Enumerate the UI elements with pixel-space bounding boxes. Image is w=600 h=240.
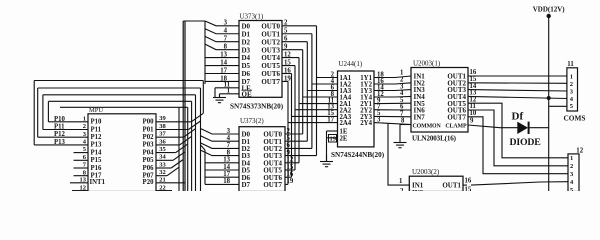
U2003(1) CLAMP wire [468, 117, 518, 127]
svg-text:SN74S244NB(20): SN74S244NB(20) [331, 151, 385, 159]
svg-text:2E: 2E [340, 135, 348, 142]
svg-text:3: 3 [224, 20, 228, 27]
svg-text:U373(2): U373(2) [240, 117, 264, 125]
svg-text:16: 16 [287, 171, 294, 178]
svg-text:U2003(1): U2003(1) [413, 59, 441, 67]
svg-text:1: 1 [399, 178, 403, 185]
svg-text:15: 15 [284, 59, 291, 66]
MPU P20 wire [156, 183, 185, 191]
svg-text:INT1: INT1 [90, 179, 106, 186]
svg-text:2Y4: 2Y4 [360, 120, 372, 127]
svg-text:9: 9 [284, 43, 288, 50]
svg-text:3: 3 [377, 116, 381, 123]
svg-text:1: 1 [570, 73, 573, 80]
svg-text:1: 1 [227, 88, 231, 95]
svg-text:8: 8 [224, 43, 228, 50]
svg-text:5: 5 [284, 28, 288, 35]
svg-text:SN74S373NB(20): SN74S373NB(20) [230, 103, 284, 111]
svg-text:OUT3: OUT3 [261, 46, 280, 54]
svg-text:4: 4 [227, 135, 231, 142]
svg-text:34: 34 [159, 154, 166, 161]
U2003(2) pin names [400, 182, 461, 198]
svg-text:11: 11 [567, 61, 574, 68]
svg-text:VDD(12V): VDD(12V) [533, 6, 566, 14]
svg-text:OUT7: OUT7 [261, 78, 280, 86]
VDD(12V) supply rail [533, 6, 566, 192]
net labels P10-P13 [54, 116, 66, 146]
svg-text:36: 36 [159, 138, 166, 145]
ground at U2003(1) COMMON [394, 125, 407, 148]
U244(1) part number SN74S244NB(20) [331, 151, 385, 159]
svg-text:D1: D1 [242, 30, 251, 38]
svg-text:13: 13 [223, 157, 230, 164]
svg-text:P20: P20 [143, 179, 155, 186]
svg-text:D6: D6 [242, 70, 251, 78]
IC U244(1) box [338, 60, 375, 147]
svg-text:10: 10 [470, 110, 477, 117]
diode Df DIODE [510, 111, 549, 149]
svg-text:P13: P13 [91, 142, 103, 149]
MPU P14-P17 and INT1 stubs [70, 153, 88, 191]
svg-text:D3: D3 [242, 46, 251, 54]
svg-text:P05: P05 [143, 157, 155, 164]
IC MPU box [88, 107, 156, 192]
bus verticals to U373(1) [183, 21, 205, 191]
svg-text:14: 14 [220, 59, 227, 66]
svg-text:U244(1): U244(1) [339, 60, 363, 68]
svg-text:7: 7 [224, 36, 228, 43]
svg-text:16: 16 [284, 67, 291, 74]
svg-text:32: 32 [159, 169, 166, 176]
svg-text:P00: P00 [143, 119, 155, 126]
svg-text:4: 4 [224, 28, 228, 35]
svg-text:8: 8 [401, 118, 405, 125]
svg-text:13: 13 [220, 51, 227, 58]
svg-text:39: 39 [159, 115, 166, 122]
svg-text:P06: P06 [143, 165, 155, 172]
wires U2003(1) OUT5-7 to connector 12 [468, 96, 568, 173]
svg-text:D0: D0 [242, 22, 251, 30]
wire 2Y4 to U2003(2) IN1 [388, 123, 409, 185]
bus wires U373 outputs to U244 inputs [282, 20, 338, 185]
U244(1) enable wires + pin 19 [327, 131, 338, 162]
svg-text:OUT7: OUT7 [263, 181, 282, 189]
svg-text:U373(1): U373(1) [240, 13, 264, 21]
svg-text:P01: P01 [143, 126, 155, 133]
svg-text:2A4: 2A4 [340, 120, 352, 127]
U373(1) input pin wires + numbers [205, 20, 239, 83]
svg-text:35: 35 [159, 146, 166, 153]
svg-text:3: 3 [227, 128, 231, 135]
ground at U373(1) OE [213, 94, 226, 103]
svg-text:19: 19 [284, 75, 291, 82]
svg-text:D4: D4 [242, 54, 251, 62]
svg-text:D7: D7 [242, 181, 251, 189]
svg-text:12: 12 [287, 157, 294, 164]
svg-text:9: 9 [287, 149, 291, 156]
svg-text:16: 16 [465, 178, 472, 185]
svg-text:33: 33 [159, 161, 166, 168]
svg-text:P03: P03 [143, 142, 155, 149]
svg-text:P15: P15 [91, 157, 103, 164]
svg-text:19: 19 [330, 136, 337, 143]
svg-text:Df: Df [512, 111, 524, 123]
svg-text:17: 17 [223, 171, 230, 178]
ground below U244(1) [320, 155, 333, 167]
svg-text:12: 12 [80, 184, 87, 191]
IC U373(2) box [239, 117, 285, 192]
svg-text:OUT5: OUT5 [261, 62, 280, 70]
svg-text:12: 12 [576, 148, 583, 155]
svg-text:7: 7 [400, 111, 404, 118]
connector 11 COMS [564, 61, 586, 123]
svg-text:6: 6 [284, 36, 288, 43]
U244(1) pin names [340, 75, 373, 142]
U373(2) output wires + numbers [285, 128, 317, 185]
svg-text:15: 15 [465, 186, 472, 191]
svg-text:38: 38 [159, 123, 166, 130]
U2003(1) COMMON wire [400, 124, 411, 126]
IC U2003(1) box [411, 59, 468, 132]
svg-text:P11: P11 [91, 126, 102, 133]
svg-text:U2003(2): U2003(2) [412, 168, 440, 176]
svg-text:2: 2 [570, 163, 573, 170]
junction dot on COMS pin4 wire [547, 96, 567, 106]
svg-text:15: 15 [287, 164, 294, 171]
svg-text:DIODE: DIODE [510, 137, 542, 148]
svg-text:CLAMP: CLAMP [445, 123, 467, 129]
svg-text:14: 14 [223, 164, 230, 171]
svg-text:ULN2003L(16): ULN2003L(16) [412, 134, 457, 142]
svg-text:P04: P04 [143, 149, 155, 156]
svg-text:OUT1: OUT1 [261, 30, 280, 38]
svg-text:P12: P12 [91, 134, 103, 141]
U373(2) pin names [242, 131, 283, 189]
U244(1) input pin numbers [327, 71, 334, 123]
U373(1) LE/OE wires [215, 82, 239, 98]
svg-text:OUT4: OUT4 [261, 54, 280, 62]
svg-text:OUT2: OUT2 [261, 38, 280, 46]
svg-text:1: 1 [570, 155, 573, 162]
svg-text:8: 8 [227, 149, 231, 156]
svg-text:17: 17 [220, 67, 227, 74]
bus verticals to U373(2) [192, 81, 204, 192]
svg-text:2: 2 [287, 128, 291, 135]
MPU P00-P07 wires to bus [156, 113, 203, 175]
svg-text:P10: P10 [91, 119, 103, 126]
U2003(1) pin names [413, 73, 467, 130]
svg-text:OUT1: OUT1 [442, 182, 461, 190]
MPU pin names and numbers [80, 115, 167, 191]
svg-text:18: 18 [223, 178, 230, 185]
U373(1) pin names [242, 22, 281, 98]
svg-text:9: 9 [470, 117, 474, 124]
U2003(2) OUT1 wire to connector [463, 178, 568, 194]
svg-text:OE: OE [242, 90, 252, 98]
svg-text:P02: P02 [143, 134, 155, 141]
U2003(1) part number ULN2003L(16) [412, 134, 457, 142]
IC U373(1) box [239, 13, 282, 98]
svg-text:MPU: MPU [89, 107, 103, 114]
wrap-around bus wires P10-P13 [34, 81, 203, 145]
svg-text:COMMON: COMMON [413, 123, 442, 129]
svg-text:COMS: COMS [564, 114, 586, 123]
IC U2003(2) box [409, 168, 463, 192]
svg-text:D2: D2 [242, 38, 251, 46]
svg-text:2: 2 [400, 188, 404, 191]
U373(2) input pin wires + numbers [201, 128, 240, 185]
svg-text:IN2: IN2 [412, 189, 424, 191]
svg-text:P16: P16 [91, 165, 103, 172]
connector 12 [568, 148, 584, 195]
svg-text:OUT7: OUT7 [447, 113, 466, 121]
U373(1) part number SN74S373B(20) [230, 103, 284, 111]
svg-text:7: 7 [227, 142, 231, 149]
svg-text:37: 37 [159, 131, 166, 138]
svg-text:D5: D5 [242, 62, 251, 70]
svg-text:2: 2 [570, 81, 573, 88]
svg-text:22: 22 [159, 184, 166, 191]
svg-text:OUT0: OUT0 [261, 22, 280, 30]
svg-text:OUT6: OUT6 [261, 70, 280, 78]
svg-text:IN7: IN7 [414, 113, 426, 121]
wires U244 outputs to U2003(1) inputs [374, 70, 411, 125]
bus wire above MPU [60, 107, 188, 191]
svg-text:P14: P14 [91, 149, 103, 156]
svg-text:6: 6 [287, 142, 291, 149]
svg-text:19: 19 [287, 178, 294, 185]
svg-text:2: 2 [284, 20, 288, 27]
svg-text:12: 12 [284, 51, 291, 58]
wires U2003(1) OUT1-4 to connector COMS [468, 69, 567, 98]
svg-text:5: 5 [287, 135, 291, 142]
